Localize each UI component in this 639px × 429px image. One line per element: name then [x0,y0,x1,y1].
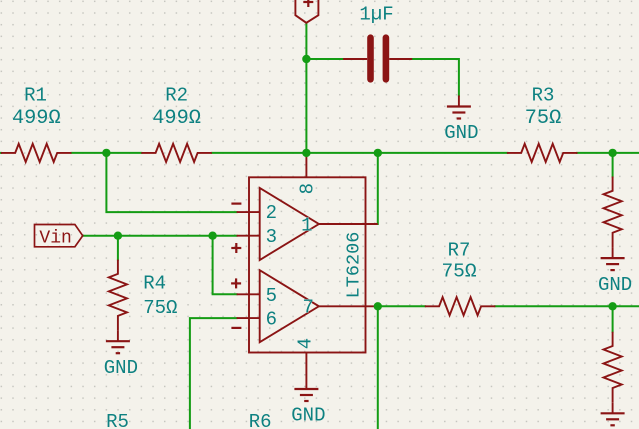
pin 3 line [237,235,260,237]
svg-text:R5: R5 [106,411,129,429]
resistor R4 [109,260,127,331]
wire power rail drop [305,23,307,153]
pin 5 line [237,293,260,295]
ground below pin 4 [291,378,325,427]
pin number 6 [266,308,277,330]
wire output 1 riser [377,153,379,224]
wire branch to pin 5 [213,236,237,295]
label R6 [249,411,272,429]
wire Vin row to pin 3 [83,235,237,237]
junction R1 R2 node [102,149,110,157]
svg-text:R3: R3 [532,85,555,107]
capacitor C1 plates [343,38,412,80]
svg-text:R4: R4 [143,273,166,295]
pin 6 line [237,317,260,319]
resistor R1 [1,144,72,162]
wire output 2 row [378,305,639,307]
label R4 [143,273,166,295]
svg-text:1: 1 [301,215,312,237]
svg-text:75Ω: 75Ω [143,297,177,319]
pin number 4 [295,338,317,349]
junction Vin R4 node [114,232,122,240]
ground right of capacitor [444,96,478,145]
wire right load 2 drop [612,306,614,331]
svg-text:LT6206: LT6206 [343,232,364,299]
wire main net row [0,152,639,154]
svg-text:R7: R7 [448,239,471,261]
pin number 1 [301,215,312,237]
label R3 [532,85,555,107]
junction pin 5 branch node [208,232,216,240]
svg-text:R6: R6 [249,411,272,429]
pin 4 line [305,353,307,379]
junction right load 2 node [608,302,616,310]
label R2 [165,85,188,107]
value R1 499&#937; [12,107,61,130]
ground below load 2 [601,402,625,425]
plus mark pin 5 [231,278,241,288]
svg-text:GND: GND [444,122,478,144]
pin 1 line [319,223,378,225]
net label Vin [35,225,83,249]
resistor load 1 [604,177,622,248]
value R7 75&#937; [441,261,476,283]
svg-text:3: 3 [266,226,277,248]
svg-text:75Ω: 75Ω [525,107,562,130]
value R4 75&#937; [143,297,177,319]
svg-text:GND: GND [598,274,632,296]
junction power tee [302,55,310,63]
minus mark pin 6 [231,327,241,329]
value C1 1uF [359,4,393,26]
junction output 2 node [374,302,382,310]
resistor R3 [507,144,578,162]
value R3 75&#937; [525,107,562,130]
op-amp U1A triangle [260,188,319,260]
wire feedback to pin 2 [106,153,236,212]
svg-text:Vin: Vin [39,229,71,249]
label R5 [106,411,129,429]
svg-text:GND: GND [291,405,325,427]
svg-text:GND: GND [104,357,138,379]
ground below load 1 [598,247,632,296]
wire right load 1 drop [612,153,614,177]
wire cap right to gnd [412,59,459,96]
ground below R4 [104,330,138,379]
pin number 7 [302,296,313,318]
label R1 [24,85,47,107]
pin 2 line [237,211,260,213]
minus mark pin 2 [231,203,241,205]
power symbol +V [295,0,318,23]
wire cap left [306,58,343,60]
svg-text:2: 2 [266,202,277,224]
junction pin 8 node [302,149,310,157]
svg-text:R2: R2 [165,85,188,107]
pin number 5 [266,285,277,307]
svg-text:4: 4 [295,338,317,349]
value R2 499&#937; [152,107,201,130]
svg-text:75Ω: 75Ω [441,261,476,283]
resistor R7 [425,297,496,315]
op-amp U1 body box [249,177,366,352]
wire output 2 drop [377,306,379,429]
svg-text:8: 8 [297,183,319,194]
wire R4 drop [117,236,119,260]
junction right load 1 node [608,149,616,157]
pin number 2 [266,202,277,224]
pin 8 line [305,153,307,177]
svg-text:499Ω: 499Ω [152,107,201,130]
svg-text:R1: R1 [24,85,47,107]
svg-text:1µF: 1µF [359,4,393,26]
plus mark pin 3 [231,243,241,253]
svg-text:6: 6 [266,308,277,330]
resistor R2 [141,144,212,162]
resistor load 2 [604,332,622,403]
pin number 3 [266,226,277,248]
svg-text:5: 5 [266,285,277,307]
part name LT6206 [343,232,364,299]
pin 7 line [319,305,378,307]
op-amp U1B triangle [260,270,319,342]
pin number 8 [297,183,319,194]
label R7 [448,239,471,261]
svg-text:7: 7 [302,296,313,318]
junction output 1 node [374,149,382,157]
wire pin 6 net [190,318,237,429]
svg-text:499Ω: 499Ω [12,107,61,130]
